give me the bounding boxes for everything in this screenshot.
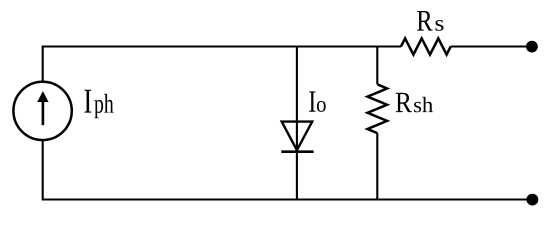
arrow of current source (points up) [37,91,48,125]
wire top-left loop (left vertical upper + top horizontal to Rs) [43,47,401,81]
current source U1 [13,82,71,140]
resistor Rsh (vertical zigzag) [368,84,388,133]
wire diode branch vertical [296,47,298,200]
wire Rsh branch upper [376,47,378,85]
wire Rsh branch lower [376,133,378,199]
label Rs [417,11,444,31]
resistor Rs (horizontal zigzag) [401,38,451,54]
label Io [309,91,326,112]
label Iph [84,90,113,119]
diode D1 cathode bar [281,150,313,153]
wire left vertical lower + bottom horizontal [43,141,532,199]
label Rsh [396,93,433,113]
diode D1 triangle [282,122,313,151]
node negative terminal (bottom right dot) [527,194,539,206]
node positive terminal (top right dot) [526,41,538,53]
wire Rs to positive terminal [451,45,531,47]
